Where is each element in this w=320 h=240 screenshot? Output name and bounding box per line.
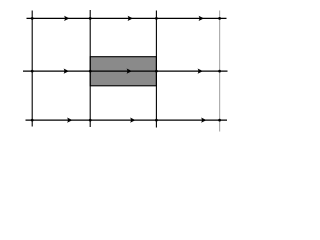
shaded face (gray domino between vertical lines V2 and V3) bbox=[90, 57, 156, 86]
node dot H2-V4 bbox=[218, 70, 221, 73]
wire: vertical line V1 bbox=[31, 11, 33, 127]
wire: vertical line V4 (light gray) bbox=[219, 11, 221, 132]
arrowhead on H3 segment V2-V3 bbox=[130, 117, 135, 122]
arrowhead on H1 segment V2-V3 bbox=[128, 16, 133, 21]
wire: horizontal line H1 (top, oriented right) bbox=[27, 17, 227, 19]
node dot H3-V2 bbox=[89, 119, 92, 122]
node dot H1-V1 bbox=[31, 17, 34, 20]
node dot H2-V1 bbox=[31, 70, 34, 73]
wire: horizontal line H3 (bottom, oriented right) bbox=[26, 119, 228, 121]
wire: vertical line V2 bbox=[89, 10, 91, 127]
node dot H1-V2 bbox=[89, 17, 92, 20]
node dot H1-V3 bbox=[155, 17, 158, 20]
arrowhead on H1 segment V1-V2 bbox=[64, 16, 69, 21]
arrowhead on H1 segment V3-V4 bbox=[199, 16, 204, 21]
wire: horizontal line H2 (middle, oriented right) bbox=[23, 70, 228, 72]
node dot H1-V4 bbox=[218, 17, 221, 20]
arrowhead on H2 segment V1-V2 bbox=[64, 68, 69, 73]
node dot H3-V3 bbox=[155, 119, 158, 122]
node dot H3-V4 bbox=[218, 119, 221, 122]
node dot H2-V2 bbox=[89, 70, 92, 73]
arrowhead on H3 segment V3-V4 bbox=[201, 117, 206, 122]
node dot H2-V3 bbox=[155, 70, 158, 73]
arrowhead on H2 segment V3-V4 bbox=[198, 68, 203, 73]
arrowhead on H2 segment V2-V3 bbox=[127, 68, 132, 73]
arrowhead on H3 segment V1-V2 bbox=[67, 117, 72, 122]
node dot H3-V1 bbox=[31, 119, 34, 122]
wire: vertical line V3 bbox=[155, 11, 157, 128]
